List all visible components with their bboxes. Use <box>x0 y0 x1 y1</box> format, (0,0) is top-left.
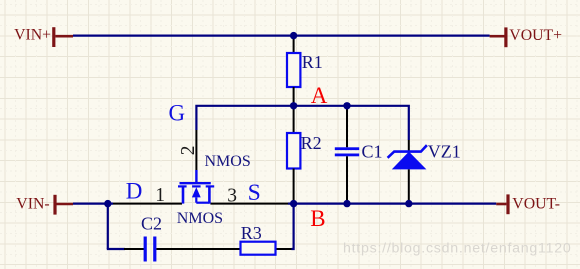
capacitor C1 <box>335 106 359 204</box>
svg-text:1: 1 <box>155 185 165 206</box>
svg-text:2: 2 <box>178 145 199 155</box>
wire up to node B <box>291 204 293 249</box>
label C1 <box>362 141 383 161</box>
junction VZ1 bottom <box>405 200 412 207</box>
node B label <box>310 206 325 231</box>
port VIN- <box>16 195 73 215</box>
resistor R1 <box>287 36 300 106</box>
label VZ1 <box>428 141 461 161</box>
junction node A <box>290 102 297 109</box>
svg-text:VIN+: VIN+ <box>14 27 51 44</box>
pin number 3 (source) <box>227 185 237 206</box>
svg-text:VIN-: VIN- <box>16 196 49 213</box>
zener diode VZ1 <box>388 140 427 204</box>
svg-text:C1: C1 <box>362 141 383 161</box>
pin lead C2 left <box>124 248 144 250</box>
svg-text:https://blog.csdn.net/enfang11: https://blog.csdn.net/enfang1120 <box>343 240 572 256</box>
junction C1 bottom <box>343 200 350 207</box>
label R3 <box>241 223 262 243</box>
wire / pin 1 lead D <box>113 203 182 205</box>
capacitor C2 <box>144 237 241 262</box>
wire D junction down <box>107 204 109 249</box>
svg-text:D: D <box>126 179 143 204</box>
junction C1 top <box>343 102 350 109</box>
node D label <box>126 179 143 204</box>
junction VIN-/D <box>104 200 111 207</box>
label NMOS (designator) <box>177 210 223 227</box>
wire top VIN+ to VOUT+ <box>73 34 490 36</box>
watermark text <box>343 240 572 256</box>
node S label <box>248 180 261 205</box>
pin lead R3 right <box>276 248 293 250</box>
wire / pin 3 lead S to B <box>210 203 288 205</box>
label C2 <box>141 214 162 234</box>
junction top/R1 <box>290 32 297 39</box>
port VOUT+ <box>490 27 563 47</box>
resistor R3 <box>241 242 276 255</box>
svg-text:R1: R1 <box>302 52 323 72</box>
port VOUT- <box>496 194 560 214</box>
wire VIN- to D junction <box>73 203 113 205</box>
label NMOS (comment) <box>205 153 251 170</box>
svg-text:G: G <box>169 101 186 126</box>
svg-text:VZ1: VZ1 <box>428 141 461 161</box>
svg-text:C2: C2 <box>141 214 162 234</box>
transistor Q1 NMOS <box>178 170 214 204</box>
wire node A row (gate to VZ1) <box>196 106 408 140</box>
wire B to VOUT- <box>288 203 496 205</box>
svg-text:R2: R2 <box>301 133 322 153</box>
junction node B <box>290 200 297 207</box>
svg-text:NMOS: NMOS <box>177 210 223 227</box>
pin number 2 (gate) <box>178 145 199 155</box>
wire gate pin lead upper <box>195 130 197 170</box>
svg-text:VOUT+: VOUT+ <box>509 27 562 44</box>
svg-text:VOUT-: VOUT- <box>512 196 560 213</box>
node G label <box>169 101 186 126</box>
label R1 <box>302 52 323 72</box>
label R2 <box>301 133 322 153</box>
node A label <box>311 83 328 108</box>
port VIN+ <box>14 27 73 47</box>
svg-text:3: 3 <box>227 185 237 206</box>
svg-text:B: B <box>310 206 325 231</box>
svg-text:NMOS: NMOS <box>205 153 251 170</box>
resistor R2 <box>287 106 300 204</box>
svg-text:S: S <box>248 180 261 205</box>
svg-text:A: A <box>311 83 328 108</box>
pin number 1 (drain) <box>155 185 165 206</box>
wire elbow to C2 <box>107 248 125 250</box>
svg-text:R3: R3 <box>241 223 262 243</box>
